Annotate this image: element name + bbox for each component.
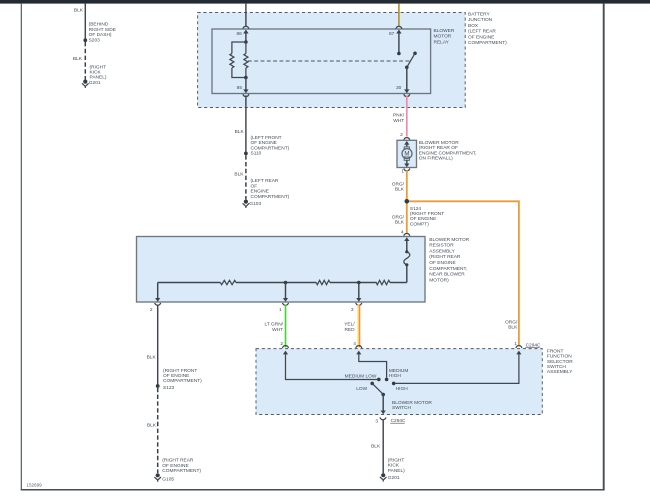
svg-text:BATTERY: BATTERY <box>468 12 490 18</box>
wire BLK relay 85 to S110 <box>235 95 246 153</box>
svg-text:ENGINE COMPARTMENT,: ENGINE COMPARTMENT, <box>419 150 477 156</box>
wire BLK S123 to G105 <box>147 388 158 473</box>
resistor assembly pin 4 <box>401 230 409 252</box>
svg-text:S124: S124 <box>410 206 422 212</box>
svg-text:BLOWER: BLOWER <box>434 28 455 34</box>
svg-text:RESISTOR: RESISTOR <box>429 243 454 249</box>
ground G201 (right kick panel) bottom <box>380 458 405 482</box>
svg-text:COMPARTMENT): COMPARTMENT) <box>251 194 290 200</box>
svg-text:30: 30 <box>396 85 402 91</box>
relay pin 87 <box>389 30 402 56</box>
resistor assembly box <box>137 237 470 303</box>
svg-text:SWITCH: SWITCH <box>392 405 411 411</box>
svg-text:(LEFT REAR: (LEFT REAR <box>468 29 496 35</box>
ground G201 (right kick panel) <box>82 64 107 88</box>
svg-text:COMPARTMENT): COMPARTMENT) <box>468 40 507 46</box>
svg-text:4: 4 <box>353 341 356 347</box>
svg-text:85: 85 <box>237 85 243 91</box>
wire BLK dash feed <box>74 4 85 41</box>
svg-text:S203: S203 <box>89 37 101 43</box>
svg-text:4: 4 <box>401 230 404 236</box>
svg-text:BLK: BLK <box>395 187 405 193</box>
svg-text:G201: G201 <box>89 80 101 86</box>
svg-text:MOTOR: MOTOR <box>434 34 452 40</box>
svg-text:BLK: BLK <box>147 423 157 429</box>
resistor R1 <box>220 280 236 284</box>
svg-text:SWITCH: SWITCH <box>547 364 566 370</box>
svg-text:PNK/: PNK/ <box>393 113 405 119</box>
svg-text:2: 2 <box>150 307 153 313</box>
resistor assembly pin 2 <box>150 283 161 313</box>
svg-text:(RIGHT: (RIGHT <box>388 458 405 464</box>
svg-text:S123: S123 <box>163 385 175 391</box>
wire BLK S203 to G201 <box>73 42 85 80</box>
relay coil main winding <box>244 42 248 78</box>
thermal limiter <box>404 250 410 282</box>
svg-text:PANEL): PANEL) <box>388 468 405 474</box>
relay pin 85 <box>237 78 249 97</box>
svg-text:ON FIREWALL): ON FIREWALL) <box>419 156 453 162</box>
svg-text:(LEFT REAR: (LEFT REAR <box>251 178 279 184</box>
svg-text:COMPARTMENT): COMPARTMENT) <box>162 468 201 474</box>
wire feed to relay 87 <box>396 4 402 29</box>
svg-text:(RIGHT REAR OF: (RIGHT REAR OF <box>419 145 458 151</box>
resistor assembly pin 3 <box>351 283 362 313</box>
svg-text:(RIGHT REAR: (RIGHT REAR <box>429 254 461 260</box>
front function selector switch assembly box <box>256 348 573 414</box>
node relay coil bottom junction <box>244 76 248 80</box>
battery junction box <box>198 12 508 108</box>
svg-text:ORG/: ORG/ <box>392 181 405 187</box>
svg-text:BLOWER MOTOR: BLOWER MOTOR <box>419 140 459 146</box>
node resistor tap 1 <box>284 281 288 285</box>
splice S123 <box>156 368 202 391</box>
wire BLK S110 to G103 <box>234 155 245 199</box>
svg-text:BOX: BOX <box>468 23 479 29</box>
svg-text:KICK: KICK <box>388 463 400 469</box>
svg-text:3: 3 <box>375 418 378 424</box>
svg-text:SELECTOR: SELECTOR <box>547 359 573 365</box>
svg-text:RELAY: RELAY <box>434 39 450 45</box>
svg-text:(RIGHT FRONT: (RIGHT FRONT <box>163 368 197 374</box>
svg-text:FRONT: FRONT <box>547 348 564 354</box>
svg-text:87: 87 <box>389 31 395 37</box>
svg-text:MEDIUM LOW: MEDIUM LOW <box>345 373 377 379</box>
svg-text:(RIGHT: (RIGHT <box>90 64 107 70</box>
svg-text:WHT: WHT <box>393 118 404 124</box>
wire BLK battery feed to relay 86 <box>243 4 249 29</box>
relay pin 86 <box>236 30 248 43</box>
connector C294C pin 1 <box>514 341 541 349</box>
svg-text:BLK: BLK <box>73 56 83 62</box>
node contact HIGH <box>392 382 408 393</box>
wire BLK C294C to G201 <box>371 420 383 473</box>
svg-text:BLK: BLK <box>395 220 405 226</box>
blower motor switch wiper <box>373 384 433 411</box>
svg-text:OF ENGINE: OF ENGINE <box>163 373 189 379</box>
svg-text:2: 2 <box>400 132 403 138</box>
splice S203 <box>83 21 116 43</box>
blower motor M1 <box>397 132 476 175</box>
svg-text:(RIGHT FRONT: (RIGHT FRONT <box>410 211 444 217</box>
wire LT GRN/WHT resistor pin 1 to switch pin 2 <box>265 305 289 348</box>
svg-text:86: 86 <box>236 31 242 37</box>
svg-text:OF ENGINE: OF ENGINE <box>410 216 436 222</box>
svg-text:1: 1 <box>279 307 282 313</box>
relay actuation dashed link <box>248 60 410 62</box>
svg-text:COMPT): COMPT) <box>410 221 429 227</box>
svg-text:MEDIUM: MEDIUM <box>389 368 408 374</box>
svg-text:OF ENGINE: OF ENGINE <box>429 260 455 266</box>
resistor R2 <box>316 280 330 284</box>
node contact LOW <box>356 382 374 392</box>
svg-text:PANEL): PANEL) <box>90 75 107 81</box>
svg-text:COMPARTMENT): COMPARTMENT) <box>251 145 290 151</box>
svg-text:COMPARTMENT): COMPARTMENT) <box>163 378 202 384</box>
wire ORG/BLK motor to S124 <box>392 170 407 201</box>
svg-text:WHT: WHT <box>272 327 283 333</box>
splice S110 <box>244 135 290 157</box>
svg-text:BLK: BLK <box>235 129 245 135</box>
svg-text:COMPARTMENT,: COMPARTMENT, <box>429 266 467 272</box>
svg-text:OF ENGINE: OF ENGINE <box>162 463 188 469</box>
svg-text:(RIGHT REAR: (RIGHT REAR <box>162 458 194 464</box>
svg-text:ENGINE: ENGINE <box>251 189 269 195</box>
svg-text:ASSEMBLY: ASSEMBLY <box>429 248 455 254</box>
wire ORG/BLK S124 to resistor pin 4 <box>392 201 410 236</box>
svg-text:ORG/: ORG/ <box>505 319 518 325</box>
ground G105 (right rear of engine compartment) <box>154 458 201 483</box>
svg-text:RED: RED <box>344 327 355 333</box>
resistor bus wire <box>158 282 407 284</box>
ground G103 (left rear of engine compartment) <box>243 178 290 208</box>
splice S124 <box>405 199 445 227</box>
node contact MEDIUM HIGH <box>385 368 409 381</box>
relay coil left branch <box>230 42 246 78</box>
switch pin 4 entry <box>356 351 386 378</box>
wire BLK resistor pin 2 to S123 <box>147 305 158 386</box>
svg-text:OF DASH): OF DASH) <box>89 32 112 38</box>
svg-text:(LEFT FRONT: (LEFT FRONT <box>251 135 282 141</box>
relay K1 blower motor relay <box>212 28 455 94</box>
resistor R3 <box>376 280 390 284</box>
resistor assembly pin 1 <box>279 283 288 313</box>
wire YEL/RED resistor pin 3 to switch pin 4 <box>344 305 362 348</box>
svg-text:NEAR BLOWER: NEAR BLOWER <box>429 272 465 278</box>
switch pin 1 entry <box>396 351 522 384</box>
svg-text:JUNCTION: JUNCTION <box>468 17 493 23</box>
svg-text:KICK: KICK <box>90 70 102 76</box>
svg-text:2: 2 <box>280 341 283 347</box>
svg-text:HIGH: HIGH <box>396 386 409 392</box>
svg-text:BLOWER MOTOR: BLOWER MOTOR <box>392 400 432 406</box>
connector C294C pin 3 <box>375 417 406 424</box>
svg-text:BLK: BLK <box>147 355 157 361</box>
svg-text:YEL/: YEL/ <box>344 322 355 328</box>
node contact MEDIUM LOW <box>345 373 381 381</box>
svg-text:G105: G105 <box>162 476 174 482</box>
svg-text:S110: S110 <box>251 151 262 157</box>
svg-text:152699: 152699 <box>26 483 42 488</box>
svg-text:BLOWER MOTOR: BLOWER MOTOR <box>429 237 469 243</box>
svg-text:G201: G201 <box>388 475 400 481</box>
node relay coil top junction <box>244 40 248 44</box>
svg-text:3: 3 <box>351 307 354 313</box>
switch pin 2 entry <box>283 351 377 380</box>
svg-text:G103: G103 <box>249 201 261 207</box>
svg-text:ORG/: ORG/ <box>392 214 405 220</box>
svg-text:1: 1 <box>514 341 517 347</box>
svg-text:HIGH: HIGH <box>389 373 402 379</box>
svg-text:LOW: LOW <box>356 386 367 392</box>
svg-text:BLK: BLK <box>371 443 381 449</box>
svg-text:OF ENGINE: OF ENGINE <box>251 140 277 146</box>
svg-text:LT GRN/: LT GRN/ <box>265 322 284 328</box>
svg-text:BLK: BLK <box>508 325 518 331</box>
svg-text:ASSEMBLY: ASSEMBLY <box>547 369 573 375</box>
wire PNK/WHT relay 30 to blower motor <box>393 95 410 139</box>
svg-text:OF ENGINE: OF ENGINE <box>468 34 494 40</box>
svg-text:(BEHIND: (BEHIND <box>89 21 109 27</box>
relay switch blade <box>405 52 417 70</box>
svg-text:MOTOR): MOTOR) <box>429 277 449 283</box>
svg-text:BLK: BLK <box>74 8 84 14</box>
svg-text:RIGHT SIDE: RIGHT SIDE <box>89 27 116 33</box>
svg-text:OF: OF <box>251 183 258 189</box>
node resistor tap 3 <box>357 281 361 285</box>
svg-text:FUNCTION: FUNCTION <box>547 354 572 360</box>
relay pin 30 <box>396 67 410 96</box>
wire ORG/BLK S124 to selector switch C294C pin 1 <box>407 201 519 345</box>
switch common to pin 3 <box>381 395 386 415</box>
svg-text:BLK: BLK <box>234 172 244 178</box>
